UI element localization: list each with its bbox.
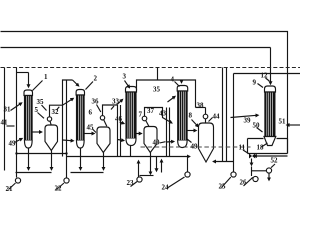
svg-text:38: 38 bbox=[197, 102, 205, 110]
svg-text:39: 39 bbox=[244, 117, 252, 125]
wire circle to separator S3 bbox=[146, 120, 149, 126]
evaporator column E2 bottom cap bbox=[77, 141, 85, 149]
wire feed pipe into E3 bottom bbox=[118, 105, 124, 157]
svg-text:4: 4 bbox=[171, 76, 175, 84]
evaporator column E4 bottom cap bbox=[178, 141, 187, 148]
svg-text:26: 26 bbox=[240, 179, 248, 187]
wire collection line left bbox=[17, 153, 67, 155]
wire feed vertical x=16 bbox=[16, 68, 18, 154]
evaporator column E2 body bbox=[77, 95, 85, 141]
wire vapor riser from effect3 dome bbox=[137, 80, 196, 108]
wire S2 bottom drop bbox=[103, 153, 105, 170]
wire condensate seg C bbox=[140, 175, 154, 177]
evaporator column E1 bottom cap bbox=[25, 141, 33, 149]
wire circle to separator S2 bbox=[104, 120, 107, 127]
label 50 pointer bbox=[257, 128, 263, 133]
valve V6 circle effect2 bbox=[100, 116, 104, 120]
label 39 arrow into E5 bbox=[231, 115, 259, 117]
svg-text:23: 23 bbox=[127, 179, 135, 187]
svg-text:24: 24 bbox=[162, 184, 170, 192]
separator S4 bbox=[199, 123, 214, 162]
svg-text:51: 51 bbox=[279, 118, 287, 126]
svg-text:50: 50 bbox=[253, 122, 261, 130]
label 46 arrow into E3 bbox=[120, 122, 124, 124]
wire feed into E2 bottom bbox=[63, 139, 74, 142]
svg-text:32: 32 bbox=[52, 108, 60, 116]
svg-text:31: 31 bbox=[4, 106, 12, 114]
wire condensate pipe x169.5 bbox=[169, 108, 171, 157]
wire circle to separator S4 bbox=[205, 119, 207, 123]
label 31 arrow into E1 bbox=[11, 103, 22, 111]
pump P26 bbox=[253, 176, 258, 181]
separator S2 bbox=[97, 127, 110, 153]
svg-text:18: 18 bbox=[257, 144, 265, 152]
label 9 pointer bbox=[258, 84, 264, 88]
dashed level line bbox=[141, 146, 251, 148]
wire feed pipe into E4 bottom bbox=[167, 108, 174, 157]
label 33 pointer bbox=[111, 106, 114, 110]
svg-text:49: 49 bbox=[9, 140, 17, 148]
wire vapor line effect3 to effect4 bbox=[145, 108, 172, 123]
pump P23 bbox=[138, 161, 140, 178]
valve V8 circle effect4 bbox=[203, 114, 208, 119]
svg-text:25: 25 bbox=[219, 183, 227, 191]
svg-text:41: 41 bbox=[1, 119, 9, 127]
svg-text:8: 8 bbox=[189, 112, 193, 120]
condenser funnel bottom bbox=[264, 137, 276, 146]
valve V5 circle effect1 bbox=[47, 117, 51, 121]
wire collection line mid bbox=[67, 156, 190, 158]
svg-text:6: 6 bbox=[89, 109, 93, 117]
label 45 pointer bbox=[93, 129, 97, 133]
wire drop x156 bbox=[156, 157, 158, 171]
svg-text:21: 21 bbox=[6, 185, 14, 193]
wire vertical drop x=222 bbox=[222, 68, 224, 162]
svg-text:45: 45 bbox=[87, 124, 95, 132]
svg-text:37: 37 bbox=[147, 107, 155, 115]
wire vapor pipe into effect1 dome bbox=[17, 72, 29, 74]
wire vapor line effect1 to effect2 bbox=[50, 99, 74, 117]
label 44 pointer bbox=[209, 118, 213, 122]
wire riser x161 bbox=[161, 160, 163, 173]
wire circle to separator S1 bbox=[50, 121, 51, 125]
svg-text:33: 33 bbox=[112, 98, 120, 106]
wire drop from valve 52 bbox=[268, 174, 270, 181]
receiver box bbox=[248, 139, 288, 154]
svg-text:2: 2 bbox=[94, 75, 98, 83]
label 51 arrow from right bbox=[287, 124, 301, 126]
wire E2 to S2 arrow bbox=[85, 133, 95, 135]
svg-text:52: 52 bbox=[271, 157, 279, 165]
svg-text:49: 49 bbox=[191, 143, 199, 151]
evaporator column E1 body bbox=[25, 96, 33, 141]
wire dashed manifold line L3 bbox=[1, 67, 301, 69]
node junction dot x66 bbox=[65, 152, 67, 154]
label 49 arrow into E1 bottom bbox=[15, 139, 23, 143]
svg-text:35: 35 bbox=[153, 86, 161, 94]
wire top manifold line L1 bbox=[1, 32, 288, 154]
svg-text:1: 1 bbox=[44, 73, 48, 81]
wire vapor pipe from E4 bbox=[196, 107, 206, 109]
wire arrow into E4 upper bbox=[168, 97, 175, 103]
wire outlet line below box bbox=[256, 155, 288, 157]
label 18 pointer bbox=[262, 143, 268, 147]
svg-text:3: 3 bbox=[123, 73, 127, 81]
wire top manifold line L2 bbox=[1, 47, 271, 49]
label 3 pointer bbox=[125, 81, 130, 88]
condenser column E5 dome bbox=[265, 86, 276, 92]
node junction dot x16 bbox=[15, 152, 17, 154]
label 41 pointer bbox=[7, 125, 15, 127]
svg-text:22: 22 bbox=[55, 185, 63, 193]
svg-text:43: 43 bbox=[159, 110, 167, 118]
wire vertical drop x=233 bbox=[233, 74, 235, 162]
wire vapor pipe into effect2 dome bbox=[63, 80, 73, 157]
label 49 pointer e4 bbox=[187, 139, 192, 143]
wire E4 to S4 arrow bbox=[188, 130, 197, 132]
svg-text:46: 46 bbox=[115, 115, 123, 123]
wire E1 to S1 arrow bbox=[33, 131, 42, 133]
evaporator column E1 dome bbox=[24, 90, 33, 96]
label 8 pointer bbox=[192, 120, 199, 127]
wire drop from valve 11 bbox=[251, 159, 253, 166]
svg-text:44: 44 bbox=[213, 113, 221, 121]
wire condensate pipe x66 bbox=[66, 80, 68, 157]
wire connector to manifold bbox=[157, 68, 159, 81]
pump P24 bbox=[187, 157, 189, 172]
svg-text:12: 12 bbox=[261, 72, 269, 80]
evaporator column E3 bottom cap bbox=[126, 139, 136, 146]
label 32 pointer bbox=[57, 107, 60, 110]
evaporator column E4 body bbox=[178, 91, 187, 141]
wire E3 bottom drop bbox=[130, 146, 132, 157]
label 40 pointer bbox=[160, 142, 166, 143]
valve 52 circle bbox=[266, 168, 271, 173]
separator S3 bbox=[144, 127, 157, 153]
valve V7 circle effect3 bbox=[142, 116, 147, 121]
wire 38 line into circle bbox=[205, 108, 207, 115]
wire S1 bottom drop bbox=[51, 151, 53, 170]
wire E2 bottom drop bbox=[80, 148, 82, 170]
condenser column E5 body bbox=[265, 92, 275, 137]
label 11 pointer bbox=[243, 150, 249, 154]
label 4 pointer bbox=[175, 82, 180, 87]
wire line into S4 cone bbox=[214, 161, 234, 163]
label 52 pointer bbox=[271, 164, 275, 168]
label 12 pointer bbox=[266, 78, 270, 81]
svg-text:35: 35 bbox=[37, 98, 45, 106]
wire vertical drop x=226 bbox=[226, 68, 228, 162]
label 2 pointer bbox=[86, 82, 94, 90]
wire manifold line L4 right bbox=[234, 73, 301, 75]
evaporator column E3 body bbox=[126, 92, 136, 139]
label 1 pointer bbox=[33, 81, 43, 91]
pump P21 bbox=[16, 154, 18, 178]
svg-text:11: 11 bbox=[239, 144, 246, 152]
label 5 pointer bbox=[38, 113, 45, 119]
wire vapor arrow into effect4 dome bbox=[181, 80, 183, 83]
wire steam line into condenser with arrow bbox=[270, 48, 272, 84]
pump P22 bbox=[66, 157, 68, 178]
svg-text:7: 7 bbox=[139, 111, 143, 119]
evaporator column E4 dome bbox=[177, 86, 188, 92]
wire S3 bottom drop bbox=[150, 153, 152, 174]
wire condensate seg A bbox=[16, 172, 52, 174]
svg-text:9: 9 bbox=[253, 79, 257, 87]
wire E1 bottom drop bbox=[28, 148, 30, 170]
svg-text:40: 40 bbox=[153, 139, 161, 147]
evaporator column E3 dome bbox=[126, 87, 137, 93]
label 36 pointer bbox=[97, 105, 101, 113]
wire condensate pipe x120.5 bbox=[120, 105, 122, 157]
wire left feed vertical x=4 bbox=[4, 68, 6, 171]
label 35 pointer bbox=[42, 105, 47, 111]
evaporator column E2 dome bbox=[76, 90, 84, 96]
svg-text:5: 5 bbox=[35, 106, 39, 114]
wire condensate seg B bbox=[71, 172, 104, 174]
wire E3 to S3 arrow bbox=[137, 133, 142, 135]
separator S1 bbox=[45, 125, 58, 151]
svg-text:36: 36 bbox=[92, 98, 100, 106]
pump P25 bbox=[233, 162, 235, 172]
valve 11 bowtie bbox=[249, 154, 255, 159]
wire vapor line effect2 to effect3 bbox=[103, 100, 123, 116]
wire into valve 52 bbox=[252, 170, 267, 172]
